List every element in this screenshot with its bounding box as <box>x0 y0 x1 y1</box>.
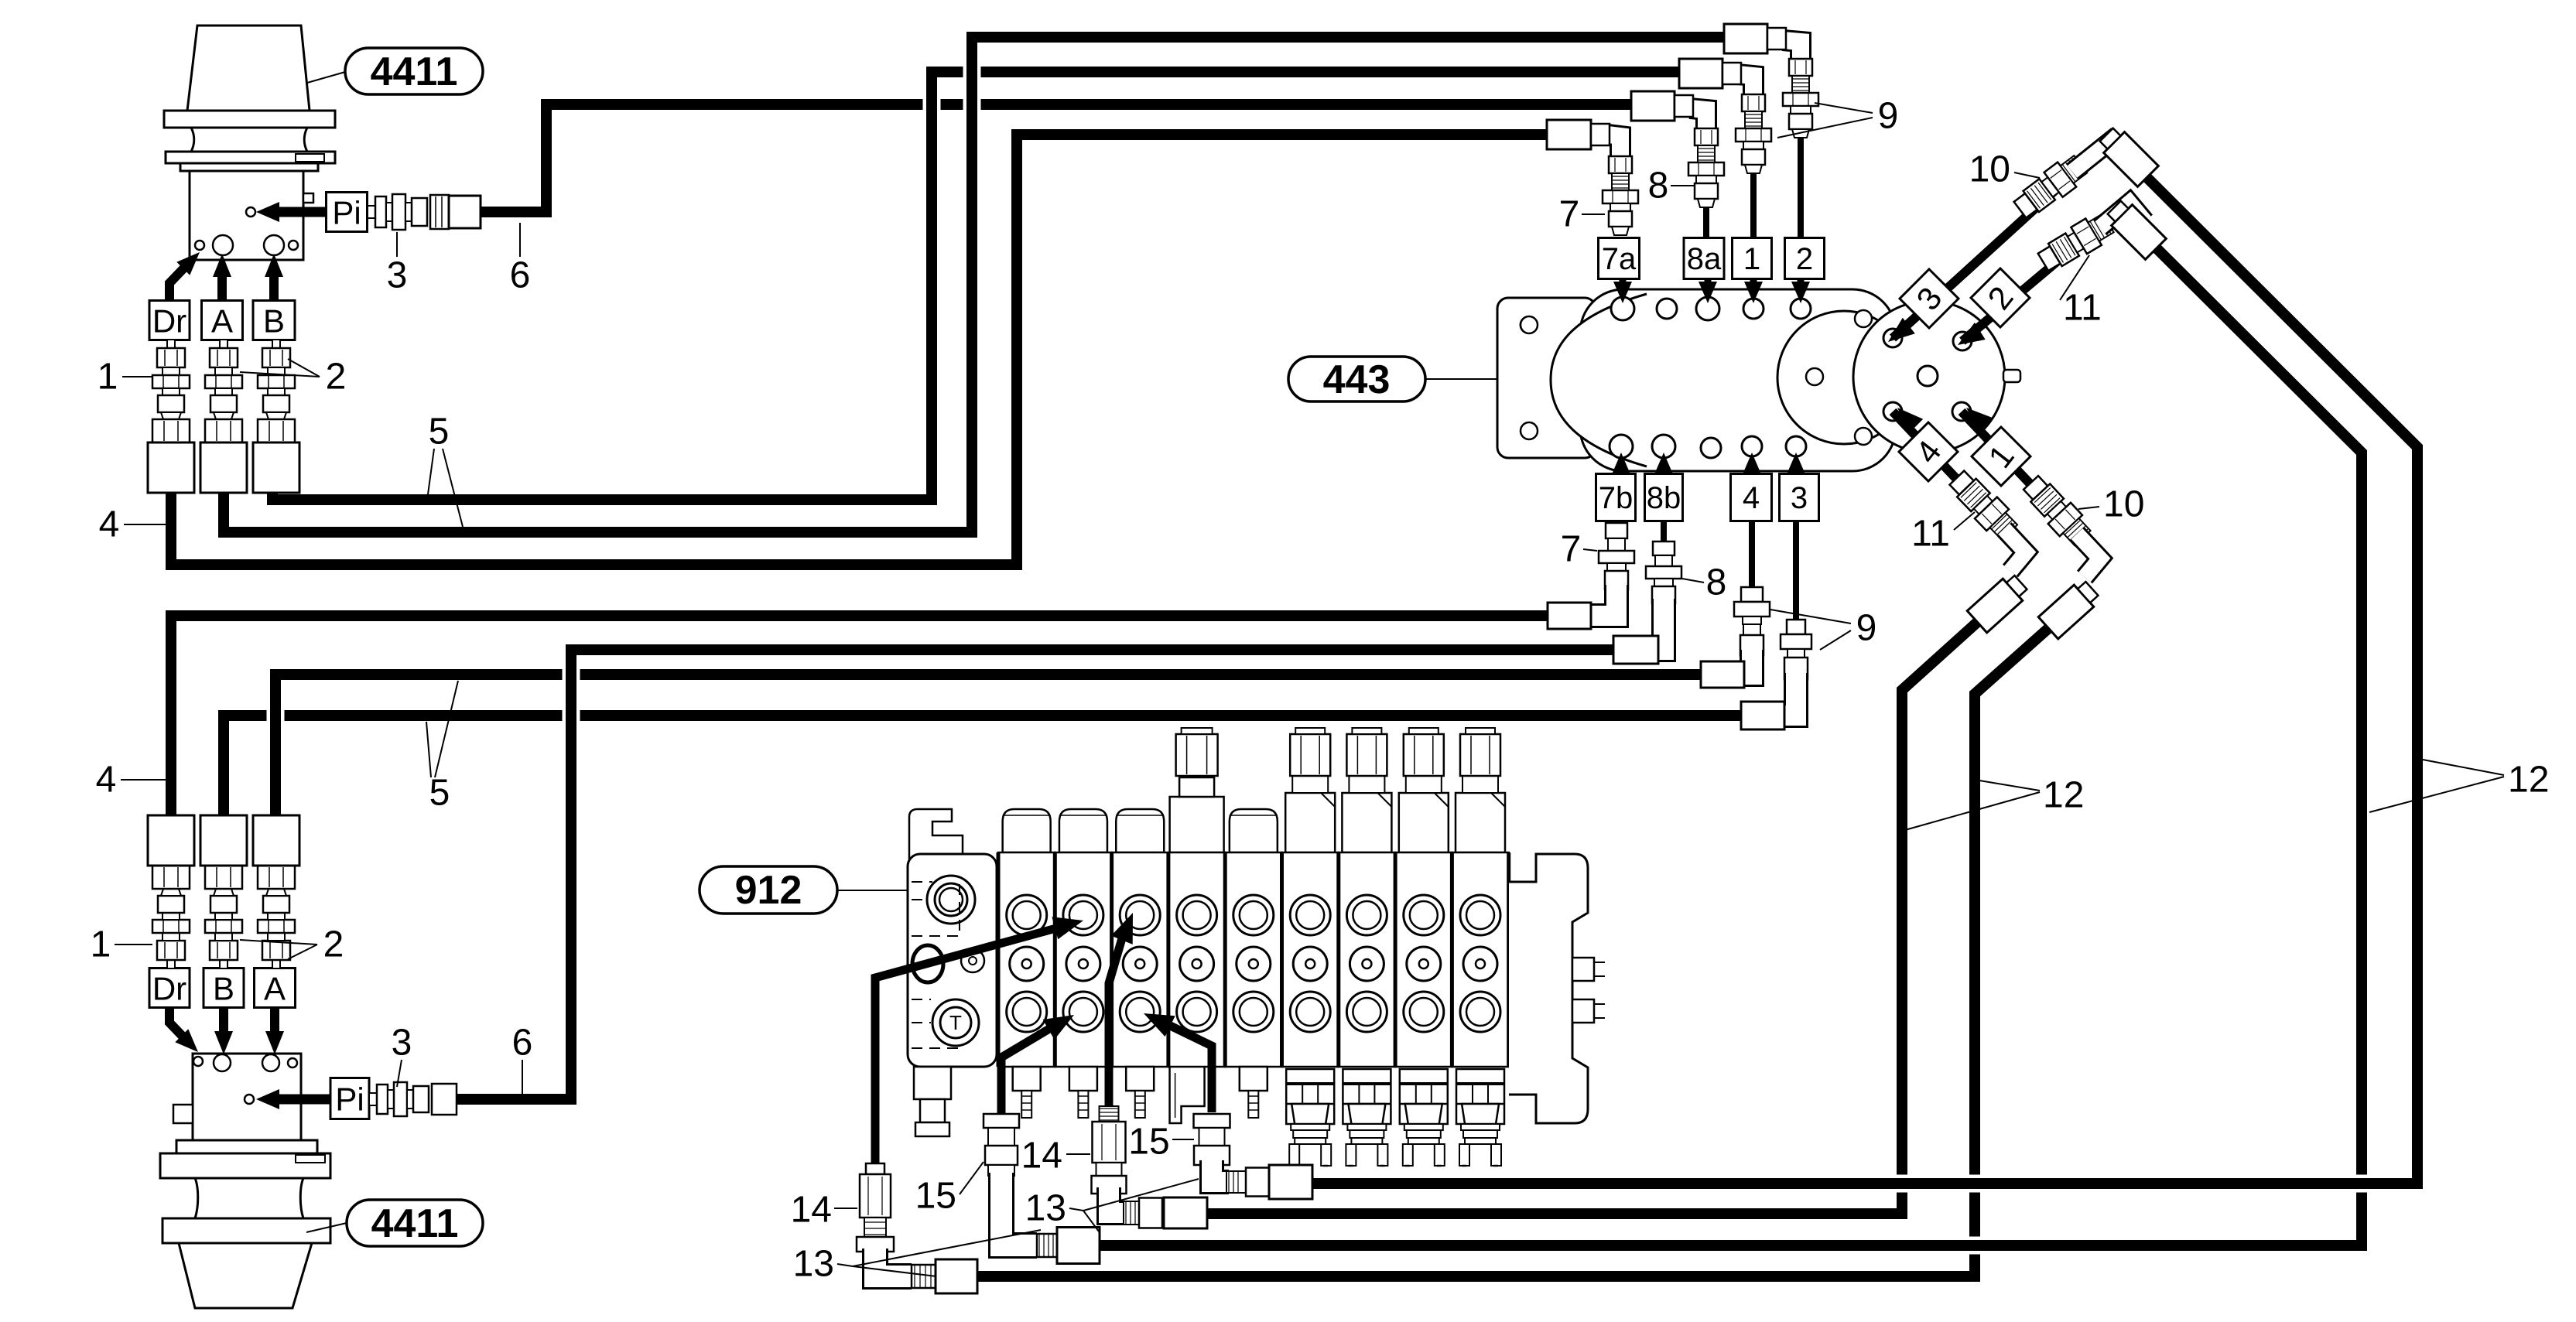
svg-text:T: T <box>949 1011 962 1034</box>
svg-text:6: 6 <box>510 255 531 296</box>
svg-text:6: 6 <box>512 1023 533 1064</box>
svg-text:13: 13 <box>793 1244 834 1285</box>
svg-text:2: 2 <box>326 357 347 398</box>
svg-text:Pi: Pi <box>335 1081 364 1118</box>
svg-text:Pi: Pi <box>332 195 361 231</box>
svg-text:7: 7 <box>1559 194 1580 235</box>
svg-text:1: 1 <box>1743 242 1760 276</box>
svg-text:3: 3 <box>392 1023 412 1064</box>
svg-text:9: 9 <box>1856 608 1877 649</box>
svg-text:4411: 4411 <box>371 1201 459 1246</box>
svg-text:15: 15 <box>1128 1122 1169 1163</box>
svg-text:7: 7 <box>1561 529 1582 570</box>
svg-text:4: 4 <box>96 760 117 801</box>
svg-text:A: A <box>264 971 286 1007</box>
svg-text:4411: 4411 <box>371 50 458 94</box>
svg-text:8a: 8a <box>1687 242 1722 276</box>
svg-text:B: B <box>263 303 285 340</box>
svg-text:14: 14 <box>791 1190 832 1231</box>
svg-text:1: 1 <box>97 357 118 398</box>
svg-text:11: 11 <box>1911 514 1950 555</box>
svg-text:13: 13 <box>1025 1188 1066 1229</box>
svg-text:8b: 8b <box>1647 481 1681 515</box>
svg-text:5: 5 <box>429 773 450 814</box>
svg-text:3: 3 <box>387 255 408 296</box>
svg-text:8: 8 <box>1648 166 1669 207</box>
svg-text:4: 4 <box>99 504 120 545</box>
svg-text:443: 443 <box>1323 357 1391 402</box>
svg-text:10: 10 <box>1969 149 2010 190</box>
svg-text:Dr: Dr <box>152 971 186 1007</box>
svg-text:3: 3 <box>1791 481 1808 515</box>
svg-text:2: 2 <box>323 924 344 965</box>
svg-text:B: B <box>213 971 234 1007</box>
svg-text:15: 15 <box>915 1176 956 1217</box>
svg-text:912: 912 <box>735 868 802 913</box>
svg-text:10: 10 <box>2103 484 2144 525</box>
svg-text:A: A <box>211 303 233 340</box>
svg-text:1: 1 <box>91 924 111 965</box>
svg-text:12: 12 <box>2508 760 2549 801</box>
svg-text:8: 8 <box>1706 562 1727 603</box>
svg-text:Dr: Dr <box>152 303 186 340</box>
svg-text:5: 5 <box>429 412 450 453</box>
svg-text:14: 14 <box>1021 1136 1062 1177</box>
svg-text:12: 12 <box>2043 775 2084 816</box>
svg-text:7b: 7b <box>1599 481 1634 515</box>
svg-text:7a: 7a <box>1602 242 1637 276</box>
svg-text:11: 11 <box>2063 288 2102 329</box>
svg-text:4: 4 <box>1743 481 1760 515</box>
svg-text:9: 9 <box>1878 96 1899 137</box>
svg-text:2: 2 <box>1796 242 1813 276</box>
